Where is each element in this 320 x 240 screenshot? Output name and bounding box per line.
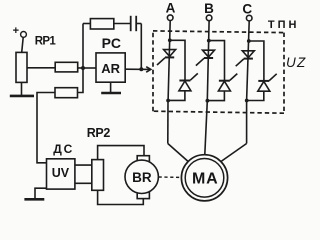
svg-text:AR: AR xyxy=(101,61,120,76)
svg-text:+: + xyxy=(13,25,19,37)
svg-text:A: A xyxy=(166,1,176,16)
svg-text:BR: BR xyxy=(132,170,152,185)
svg-text:UV: UV xyxy=(52,166,70,180)
svg-text:MA: MA xyxy=(192,170,218,187)
svg-text:B: B xyxy=(204,1,214,16)
svg-text:RP2: RP2 xyxy=(87,126,111,140)
svg-text:UZ: UZ xyxy=(286,55,306,70)
svg-text:RP1: RP1 xyxy=(35,36,57,48)
svg-text:PC: PC xyxy=(102,35,121,51)
svg-text:ТПН: ТПН xyxy=(268,19,300,31)
svg-text:C: C xyxy=(242,1,252,16)
svg-text:ДС: ДС xyxy=(53,142,74,156)
